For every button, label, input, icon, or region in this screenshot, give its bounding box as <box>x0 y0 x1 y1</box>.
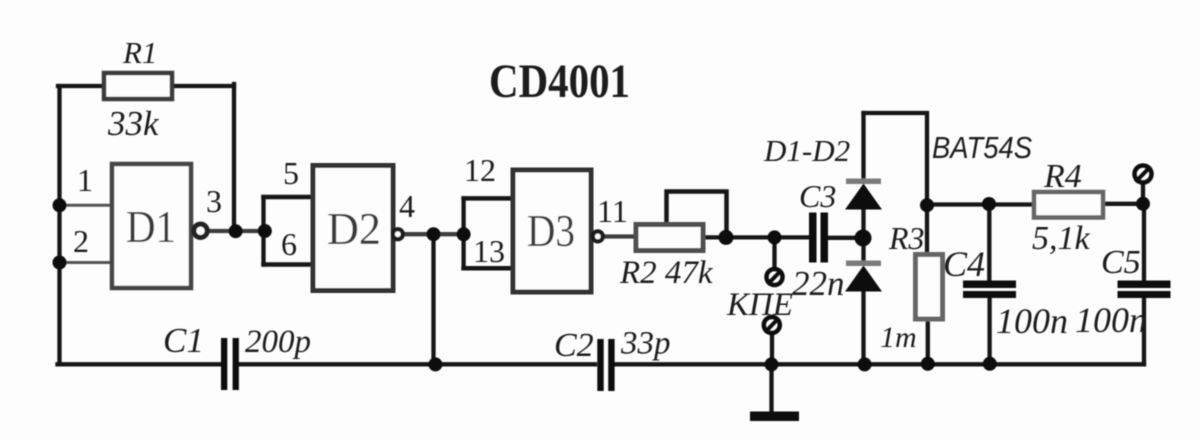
svg-text:100n: 100n <box>996 301 1068 341</box>
svg-text:100n: 100n <box>1075 300 1147 340</box>
svg-text:33k: 33k <box>107 104 160 143</box>
svg-text:C5: C5 <box>1101 244 1141 281</box>
svg-text:КПЕ: КПЕ <box>726 287 793 323</box>
svg-text:200p: 200p <box>245 324 311 360</box>
svg-text:R2 47k: R2 47k <box>619 255 714 291</box>
svg-text:D2: D2 <box>327 204 381 254</box>
svg-text:C3: C3 <box>799 178 836 214</box>
svg-text:BAT54S: BAT54S <box>932 130 1032 165</box>
svg-text:D3: D3 <box>527 206 575 256</box>
svg-text:6: 6 <box>281 226 297 262</box>
svg-text:C4: C4 <box>943 244 985 284</box>
svg-text:R3: R3 <box>888 220 925 256</box>
svg-text:12: 12 <box>464 152 496 188</box>
svg-text:5,1k: 5,1k <box>1032 220 1091 257</box>
svg-text:1m: 1m <box>880 321 917 354</box>
svg-text:13: 13 <box>473 233 505 269</box>
svg-text:R1: R1 <box>122 35 157 70</box>
svg-text:CD4001: CD4001 <box>489 55 630 108</box>
svg-text:D1-D2: D1-D2 <box>763 133 850 168</box>
svg-text:4: 4 <box>399 188 415 224</box>
svg-text:22n: 22n <box>792 264 845 303</box>
svg-text:11: 11 <box>597 193 628 229</box>
svg-text:5: 5 <box>283 155 299 191</box>
svg-text:C1: C1 <box>163 321 204 360</box>
svg-text:33p: 33p <box>620 326 671 362</box>
svg-text:R4: R4 <box>1043 158 1082 195</box>
svg-text:1: 1 <box>77 162 93 198</box>
svg-text:C2: C2 <box>554 327 594 364</box>
svg-text:2: 2 <box>73 223 89 259</box>
svg-text:3: 3 <box>206 183 222 219</box>
svg-text:D1: D1 <box>126 202 176 252</box>
